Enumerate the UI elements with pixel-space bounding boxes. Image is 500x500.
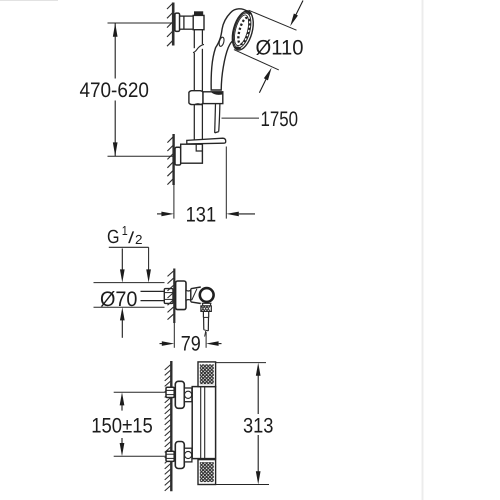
dimension 79 arrows (160, 341, 222, 346)
dimension 313 extensions (216, 362, 266, 364)
lower ball joint (184, 448, 192, 462)
dimension Ø110 tangent lines (249, 10, 297, 30)
svg-text:131: 131 (186, 203, 217, 226)
dimension Ø110 arrow lower (259, 68, 271, 93)
wall valve extension down (173, 323, 175, 348)
svg-text:1: 1 (122, 223, 128, 238)
lower bracket body (181, 144, 203, 163)
svg-text:G: G (107, 227, 120, 248)
hose upper (215, 104, 220, 133)
rail clamp (193, 15, 204, 29)
svg-text:Ø70: Ø70 (100, 288, 138, 311)
slider holder knob (189, 91, 203, 105)
wall hatching thermostat (165, 365, 171, 491)
wall top bracket (172, 3, 175, 46)
dimension 150±15 extensions (114, 391, 166, 393)
rail (194, 30, 202, 140)
upper union nut (166, 387, 174, 397)
rail slider collar (194, 104, 202, 105)
dimension 79 extension right (205, 332, 207, 348)
knob (200, 288, 214, 302)
nozzle ring (236, 17, 252, 46)
svg-text:150±15: 150±15 (91, 414, 153, 437)
slider holder cradle (203, 92, 223, 104)
wall hatching valve (168, 271, 174, 320)
dimension 131 arrows (157, 212, 255, 217)
bottom knob knurled (198, 460, 216, 485)
clamp cap (194, 12, 203, 16)
svg-text:313: 313 (243, 414, 274, 437)
dimension 150±15 arrows (120, 392, 125, 456)
svg-text:470-620: 470-620 (79, 79, 149, 102)
dark arc top of face (245, 11, 251, 14)
svg-text:2: 2 (135, 232, 143, 247)
svg-text:/: / (128, 230, 135, 247)
dimension 131 extension right (225, 147, 227, 219)
cradle notch (dark) (211, 92, 223, 95)
valve flange (176, 281, 186, 310)
rail socket step in bracket (196, 144, 202, 151)
hand shower body and handle (211, 9, 248, 90)
dimension Ø70 extensions (94, 282, 165, 284)
spray mode button (218, 37, 225, 47)
soap shelf (187, 138, 226, 144)
thermostat body (192, 387, 215, 459)
upper ball joint (184, 388, 192, 402)
dimension 131 extension left (173, 181, 175, 219)
rail break mark (193, 44, 204, 52)
hose nut knurled (201, 306, 211, 312)
dimension Ø70 arrows (120, 249, 125, 338)
upper escutcheon (175, 381, 184, 408)
lower bracket flange (175, 147, 181, 165)
svg-text:Ø110: Ø110 (256, 37, 304, 60)
lower union nut (166, 451, 174, 461)
supply pipe (141, 291, 165, 300)
dimension 470-620 extension top (108, 22, 172, 24)
wall lower bracket (172, 134, 174, 185)
dimension 313 arrows (256, 363, 261, 485)
svg-text:1750: 1750 (261, 108, 299, 131)
wall hatching top (167, 4, 172, 47)
G 1/2 underline leader (109, 247, 151, 282)
dimension 470-620 extension bottom (108, 155, 174, 157)
lower escutcheon (175, 442, 184, 469)
wall hatching lower bracket (167, 137, 172, 184)
pipe nut (164, 289, 173, 304)
hose connector (202, 303, 211, 306)
dimension Ø110 arrow upper (290, 1, 303, 27)
faint top edge smudge (0, 0, 58, 1)
leader 1750 (222, 117, 260, 119)
valve hose (203, 311, 208, 336)
top knob knurled (198, 362, 216, 387)
svg-text:79: 79 (181, 333, 201, 356)
dark blob bottom of face (234, 46, 241, 51)
top bracket flange (175, 13, 180, 31)
valve neck (186, 290, 191, 300)
dimension line 470-620 (113, 23, 118, 156)
faint page fold line (422, 0, 424, 500)
shower head face (229, 9, 257, 52)
valve body cone (191, 287, 201, 304)
top bracket arm (180, 16, 194, 29)
wall thermostat (170, 361, 172, 491)
wall valve (173, 269, 175, 324)
